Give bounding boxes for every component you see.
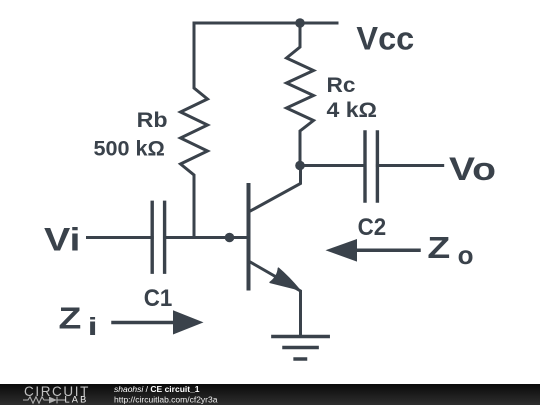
svg-text:o: o (458, 240, 474, 270)
svg-text:Vi: Vi (44, 222, 81, 258)
ground (273, 337, 328, 360)
resistor Rb (181, 23, 208, 238)
label Vi (44, 222, 81, 258)
label Rb value 500 k (94, 136, 165, 161)
footer bar (0, 384, 540, 405)
capacitor C2 (365, 132, 377, 201)
label Vcc (356, 20, 414, 56)
arrow Zi (113, 310, 204, 334)
label Zi (59, 300, 98, 341)
svg-text:shaohsi / CE circuit_1: shaohsi / CE circuit_1 (114, 384, 200, 394)
label Rb (137, 108, 168, 132)
svg-text:Z: Z (59, 300, 82, 335)
label Rc value 4 k (327, 99, 378, 122)
transistor Q1 emitter lead (249, 261, 301, 337)
svg-text:i: i (88, 313, 98, 341)
capacitor C1 (152, 202, 164, 272)
svg-text:C2: C2 (358, 214, 387, 241)
logo CIRCUIT text (24, 384, 90, 399)
logo resistor-diode glyph (23, 397, 66, 404)
wire Vi to C1 (88, 236, 153, 239)
node collector junction (295, 161, 305, 171)
label Zo (427, 230, 473, 270)
footer url (114, 394, 218, 404)
svg-text:Vo: Vo (449, 151, 496, 187)
svg-text:Rb: Rb (137, 108, 168, 132)
logo LAB text (65, 395, 89, 405)
svg-text:4 kΩ: 4 kΩ (327, 99, 378, 122)
label Rc (327, 72, 356, 97)
resistor Rc (287, 23, 314, 166)
label C1 (144, 285, 173, 312)
footer title shaohsi / CE circuit_1 (114, 384, 200, 394)
node Vcc junction (295, 18, 305, 28)
label C2 (358, 214, 387, 241)
svg-text:Z: Z (427, 230, 450, 265)
arrow Zo (326, 239, 420, 262)
svg-text:C1: C1 (144, 285, 173, 312)
wire C2 to Vo (377, 164, 442, 167)
wire Vcc top rail (194, 22, 337, 25)
wire C1 to base (165, 236, 247, 239)
svg-text:http://circuitlab.com/cf2yr3a: http://circuitlab.com/cf2yr3a (114, 394, 218, 404)
svg-text:Rc: Rc (327, 72, 356, 97)
transistor Q1 collector lead (249, 166, 301, 213)
transistor Q1 emitter arrow (270, 268, 299, 290)
svg-text:LAB: LAB (65, 395, 89, 405)
label Vo (449, 151, 496, 187)
transistor Q1 base bar (247, 185, 251, 289)
svg-text:Vcc: Vcc (356, 20, 414, 56)
svg-text:500 kΩ: 500 kΩ (94, 136, 165, 161)
wire collector node to C2 (300, 164, 365, 167)
node base junction (225, 233, 235, 243)
